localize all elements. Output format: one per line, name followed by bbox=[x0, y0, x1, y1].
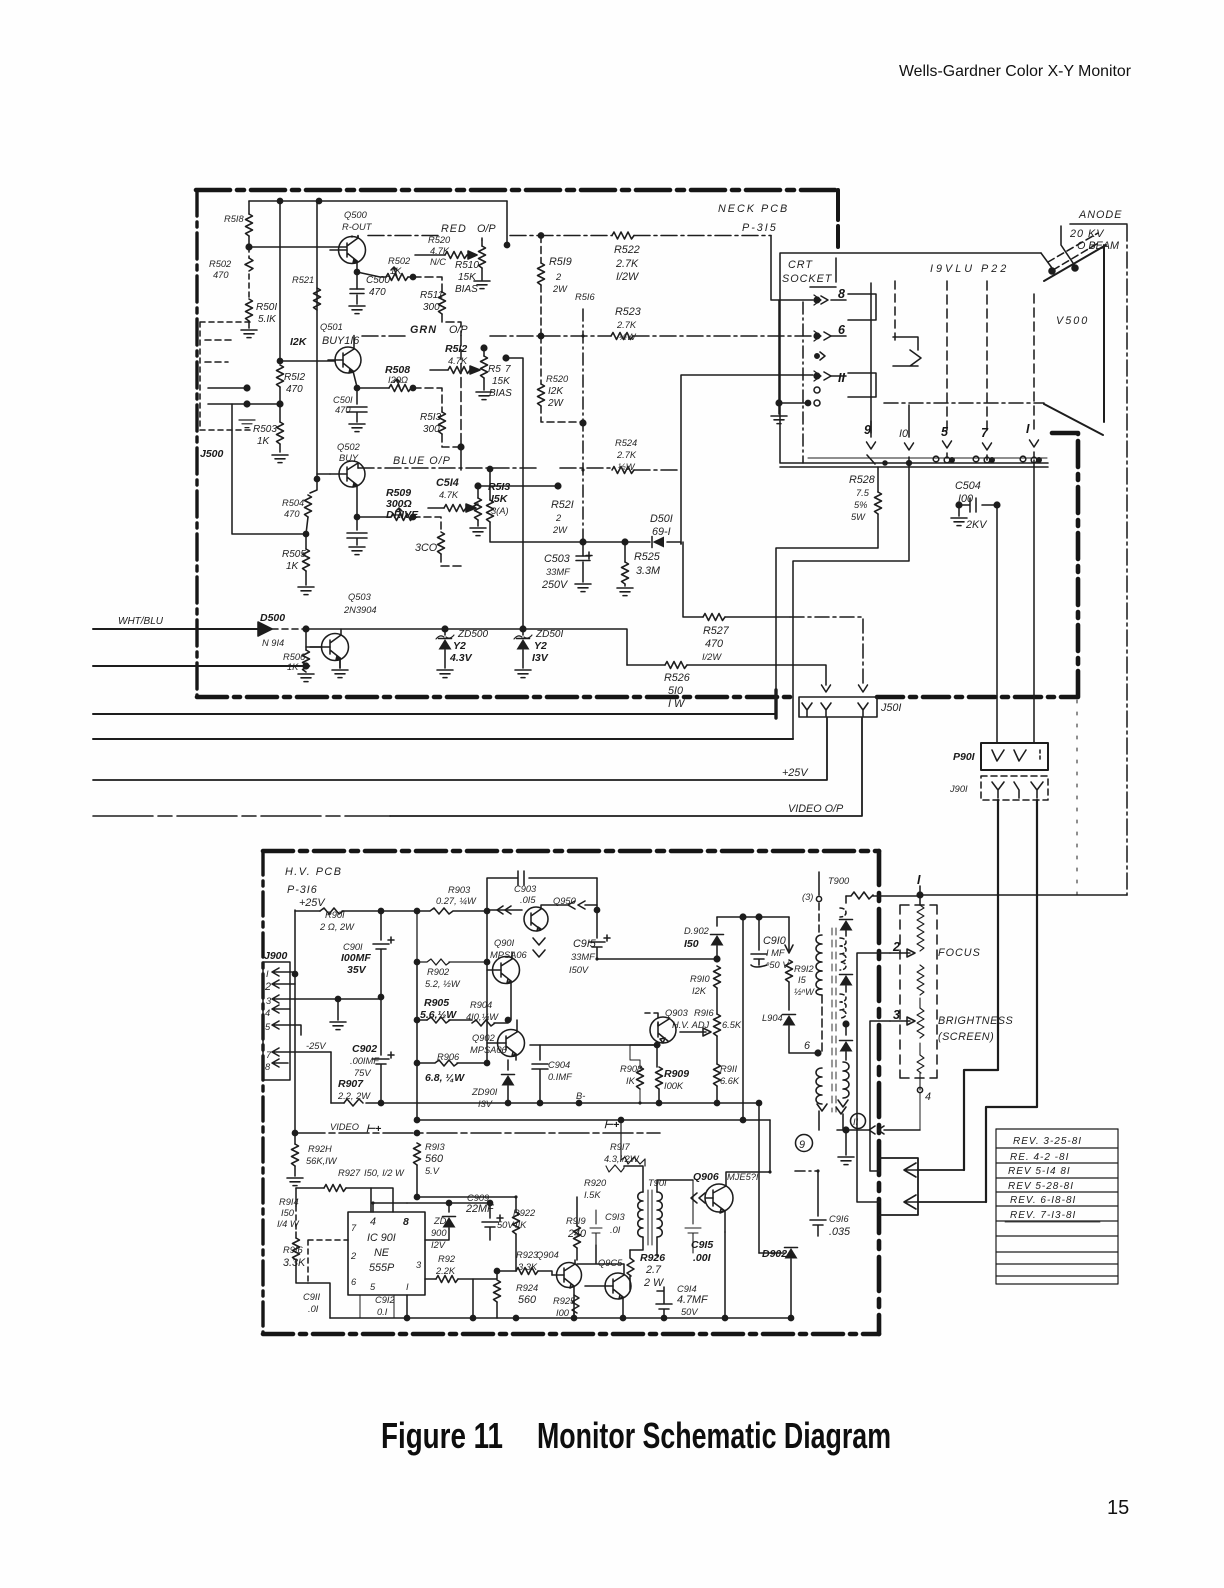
svg-text:I0: I0 bbox=[899, 428, 908, 440]
wire Q902 collector row bbox=[530, 1044, 660, 1046]
svg-text:C9I5: C9I5 bbox=[573, 938, 597, 950]
diode D904 (HV chain 2) bbox=[840, 975, 853, 986]
capacitor C502 bbox=[347, 517, 367, 545]
svg-text:5: 5 bbox=[265, 1022, 271, 1032]
svg-text:J50I: J50I bbox=[880, 702, 901, 714]
socket aux contacts bbox=[815, 354, 819, 358]
svg-text:R528: R528 bbox=[849, 474, 875, 486]
svg-text:69-I: 69-I bbox=[652, 526, 671, 538]
svg-text:R50I: R50I bbox=[256, 302, 277, 313]
ground (ZD501) bbox=[515, 670, 531, 678]
wire top-left rail bbox=[249, 200, 507, 202]
wire focus feed arrow bbox=[837, 1126, 920, 1134]
svg-text:6: 6 bbox=[351, 1277, 357, 1287]
svg-text:R9I0: R9I0 bbox=[690, 974, 710, 984]
svg-text:C50I: C50I bbox=[333, 395, 353, 405]
wire 12K rail bbox=[316, 201, 318, 479]
svg-text:3.3M: 3.3M bbox=[636, 565, 660, 577]
svg-text:I5K: I5K bbox=[491, 493, 509, 505]
wire x583 vertical bbox=[582, 309, 584, 542]
svg-text:R522: R522 bbox=[614, 244, 640, 256]
transistor Q503 bbox=[322, 634, 349, 661]
svg-text:R503: R503 bbox=[253, 424, 277, 435]
svg-text:+25V: +25V bbox=[782, 767, 809, 779]
svg-text:4: 4 bbox=[265, 1008, 270, 1018]
capacitor C500 bbox=[354, 269, 359, 274]
arrow contact a bbox=[904, 1163, 918, 1177]
svg-text:Q90I: Q90I bbox=[494, 938, 515, 948]
svg-text:R524: R524 bbox=[615, 438, 637, 448]
svg-text:560: 560 bbox=[425, 1153, 443, 1165]
svg-text:J500: J500 bbox=[200, 448, 224, 460]
svg-text:1K: 1K bbox=[257, 436, 271, 447]
svg-text:6.8, ¼W: 6.8, ¼W bbox=[425, 1072, 465, 1084]
svg-text:R92H: R92H bbox=[308, 1144, 332, 1154]
ground (socket) bbox=[778, 403, 780, 414]
svg-text:ZD90I: ZD90I bbox=[471, 1087, 498, 1097]
CRT heater columns bbox=[946, 281, 948, 433]
svg-text:R923: R923 bbox=[516, 1250, 539, 1260]
svg-text:Q906: Q906 bbox=[693, 1171, 719, 1183]
svg-text:B-: B- bbox=[576, 1091, 585, 1101]
svg-text:Q904: Q904 bbox=[536, 1250, 559, 1260]
wire long line 2 bbox=[93, 738, 793, 740]
socket pin 6 bbox=[814, 333, 820, 339]
ground (Q503 emitter) bbox=[339, 658, 341, 668]
wire RED jog to socket pin8 bbox=[771, 236, 813, 301]
svg-text:470: 470 bbox=[369, 287, 386, 298]
svg-text:I.5K: I.5K bbox=[584, 1190, 601, 1200]
ground (R510) bbox=[474, 281, 490, 289]
svg-text:BIAS: BIAS bbox=[489, 388, 512, 399]
svg-text:½W: ½W bbox=[619, 332, 637, 342]
svg-text:C9I4: C9I4 bbox=[677, 1284, 697, 1294]
svg-text:NE: NE bbox=[374, 1247, 390, 1259]
NECK PCB border left bbox=[195, 190, 198, 697]
wire T900 drive bbox=[785, 917, 793, 953]
svg-text:R526: R526 bbox=[664, 672, 690, 684]
svg-text:15K: 15K bbox=[492, 376, 511, 387]
svg-text:R502: R502 bbox=[388, 256, 411, 266]
svg-text:.00I: .00I bbox=[693, 1252, 712, 1264]
svg-text:R907: R907 bbox=[338, 1078, 364, 1090]
svg-text:8: 8 bbox=[265, 1062, 271, 1072]
resistor R522 (on RED line) bbox=[612, 232, 634, 239]
HV PCB border right bbox=[877, 851, 882, 1334]
wire B+ feed column bbox=[742, 917, 744, 1120]
svg-text:2 Ω, 2W: 2 Ω, 2W bbox=[319, 922, 355, 932]
svg-text:GRN: GRN bbox=[410, 324, 437, 336]
svg-text:Q9C5: Q9C5 bbox=[598, 1258, 623, 1268]
svg-text:4: 4 bbox=[925, 1091, 931, 1103]
svg-text:ANODE: ANODE bbox=[1078, 209, 1122, 221]
resistor R521 2ohm bbox=[487, 466, 492, 471]
svg-text:C909: C909 bbox=[467, 1193, 489, 1203]
svg-text:IK: IK bbox=[626, 1076, 636, 1086]
spark gap (pin7) bbox=[973, 456, 979, 462]
wire HV right dash remnant bbox=[1076, 700, 1078, 900]
node 4 bbox=[917, 1087, 922, 1092]
svg-text:VIDEO: VIDEO bbox=[330, 1122, 359, 1132]
svg-text:5W: 5W bbox=[851, 512, 866, 522]
arrows Q901 collector bbox=[533, 938, 545, 957]
svg-text:SOCKET: SOCKET bbox=[782, 273, 833, 285]
svg-text:R927: R927 bbox=[338, 1168, 361, 1178]
svg-text:300: 300 bbox=[423, 424, 440, 435]
svg-text:R924: R924 bbox=[516, 1283, 538, 1293]
svg-text:R902: R902 bbox=[427, 967, 450, 977]
svg-text:2W: 2W bbox=[552, 284, 568, 294]
svg-text:2: 2 bbox=[264, 981, 271, 993]
svg-text:I: I bbox=[1026, 422, 1030, 436]
pot BRIGHTNESS bbox=[917, 965, 924, 1008]
ground (C503) bbox=[575, 584, 591, 592]
svg-text:900: 900 bbox=[431, 1228, 447, 1238]
T900 HV secondary bbox=[845, 896, 847, 903]
svg-text:I: I bbox=[266, 969, 269, 979]
svg-text:I2K: I2K bbox=[290, 336, 308, 348]
wire J901 lead A bbox=[964, 800, 998, 1170]
svg-text:C90I: C90I bbox=[343, 942, 363, 952]
NECK PCB border bottom bbox=[197, 695, 796, 700]
svg-text:33MF: 33MF bbox=[571, 952, 596, 962]
svg-text:ZD500: ZD500 bbox=[457, 629, 488, 640]
svg-text:R904: R904 bbox=[470, 1000, 492, 1010]
IC U901 NE555 bbox=[348, 1212, 425, 1295]
wire ZD501 rail from bias row bbox=[506, 358, 523, 629]
svg-text:R506: R506 bbox=[283, 652, 306, 662]
wire zener row to R526 bbox=[523, 629, 627, 665]
svg-text:4.7K: 4.7K bbox=[448, 356, 468, 366]
svg-text:4.7MF: 4.7MF bbox=[677, 1294, 709, 1306]
svg-text:6: 6 bbox=[838, 323, 846, 337]
svg-text:50V: 50V bbox=[681, 1307, 698, 1317]
svg-text:R920: R920 bbox=[584, 1178, 607, 1188]
svg-text:R92: R92 bbox=[438, 1254, 456, 1264]
svg-text:I2K: I2K bbox=[548, 386, 564, 397]
ground (R506) bbox=[298, 674, 314, 682]
svg-text:2N3904: 2N3904 bbox=[343, 605, 377, 615]
svg-text:470: 470 bbox=[284, 509, 300, 519]
wire pin10 jog to line2 bbox=[793, 463, 909, 739]
svg-text:I5: I5 bbox=[798, 975, 807, 985]
svg-text:L904: L904 bbox=[762, 1013, 783, 1023]
svg-text:R511: R511 bbox=[420, 290, 443, 301]
svg-text:-25V: -25V bbox=[306, 1041, 326, 1051]
wire R512 column bbox=[279, 201, 281, 361]
svg-text:Monitor Schematic Diagram: Monitor Schematic Diagram bbox=[537, 1415, 891, 1456]
resistor R526 510 1W bbox=[627, 665, 826, 685]
ground (T900) bbox=[845, 1130, 847, 1155]
svg-text:I: I bbox=[406, 1282, 409, 1292]
svg-text:56K,IW: 56K,IW bbox=[306, 1156, 338, 1166]
ground (R505) bbox=[298, 587, 314, 595]
wire long line 1 bbox=[93, 713, 776, 715]
J501 pin2 arrow bbox=[822, 685, 831, 692]
ground (C504) bbox=[958, 505, 960, 516]
svg-text:D500: D500 bbox=[260, 612, 285, 624]
wire socket ground rail bbox=[779, 300, 806, 403]
svg-text:REV 5-I4 8I: REV 5-I4 8I bbox=[1008, 1166, 1071, 1177]
svg-text:REV. 3-25-8I: REV. 3-25-8I bbox=[1013, 1136, 1082, 1147]
svg-text:R521: R521 bbox=[292, 275, 314, 285]
svg-text:3: 3 bbox=[416, 1260, 422, 1270]
zener ZD500 bbox=[306, 629, 445, 635]
svg-text:R9I9: R9I9 bbox=[566, 1216, 586, 1226]
pot bracket box bbox=[900, 905, 937, 1078]
svg-text:.0I: .0I bbox=[308, 1304, 319, 1314]
svg-text:R5I3: R5I3 bbox=[488, 481, 510, 493]
svg-text:REV. 6-I8-8I: REV. 6-I8-8I bbox=[1010, 1195, 1076, 1206]
svg-text:O/P: O/P bbox=[449, 324, 468, 336]
svg-text:Wells-Gardner Color X-Y Monito: Wells-Gardner Color X-Y Monitor bbox=[899, 63, 1132, 80]
svg-text:P-3I5: P-3I5 bbox=[742, 222, 778, 234]
svg-text:(SCREEN): (SCREEN) bbox=[938, 1031, 994, 1043]
svg-text:NECK PCB: NECK PCB bbox=[718, 203, 789, 215]
svg-text:ZD50I: ZD50I bbox=[535, 629, 563, 640]
svg-text:6.5K: 6.5K bbox=[722, 1020, 742, 1030]
NECK PCB border top bbox=[196, 188, 838, 193]
arrow contact b bbox=[904, 1195, 918, 1209]
svg-text:2.7: 2.7 bbox=[645, 1264, 662, 1276]
svg-text:0.I: 0.I bbox=[377, 1307, 388, 1317]
wire Q501 base bbox=[280, 360, 335, 362]
svg-text:5.V: 5.V bbox=[425, 1166, 440, 1176]
svg-text:+25V: +25V bbox=[299, 897, 326, 909]
svg-text:R905: R905 bbox=[424, 997, 449, 1009]
svg-text:R52I: R52I bbox=[551, 499, 574, 511]
svg-text:R9II: R9II bbox=[720, 1064, 737, 1074]
svg-text:2.2, 2W: 2.2, 2W bbox=[337, 1091, 371, 1101]
svg-text:6: 6 bbox=[804, 1040, 810, 1052]
svg-text:.0I: .0I bbox=[610, 1225, 621, 1235]
HV PCB border left bbox=[261, 851, 264, 1334]
svg-text:R926: R926 bbox=[640, 1252, 665, 1264]
connector HV output block bbox=[880, 1158, 918, 1215]
svg-text:I2V: I2V bbox=[431, 1240, 446, 1250]
svg-text:I MF: I MF bbox=[766, 948, 786, 958]
svg-text:I/2W: I/2W bbox=[616, 271, 640, 283]
svg-text:I3V: I3V bbox=[532, 652, 549, 664]
transistor Q903 bbox=[650, 1017, 676, 1043]
svg-text:I50: I50 bbox=[281, 1208, 295, 1218]
svg-text:3CO: 3CO bbox=[415, 542, 438, 554]
svg-text:9: 9 bbox=[799, 1139, 805, 1151]
svg-text:N/C: N/C bbox=[430, 257, 446, 267]
ground (J500 shield) bbox=[239, 420, 255, 428]
svg-text:7: 7 bbox=[505, 364, 511, 375]
svg-text:2: 2 bbox=[555, 513, 562, 523]
svg-text:BRIGHTNESS: BRIGHTNESS bbox=[938, 1015, 1013, 1027]
ground (J900 pin3) bbox=[330, 1022, 346, 1030]
svg-text:2 W: 2 W bbox=[643, 1277, 665, 1289]
svg-text:3.3K: 3.3K bbox=[518, 1262, 538, 1272]
connector J501 bbox=[799, 697, 877, 717]
svg-text:35V: 35V bbox=[347, 964, 367, 976]
svg-text:8: 8 bbox=[838, 287, 845, 301]
wire B- to C916 bbox=[758, 917, 760, 1240]
svg-text:RED: RED bbox=[441, 223, 467, 235]
ground (R5I3b) bbox=[470, 528, 486, 536]
wire J500 shield to node bbox=[232, 404, 306, 534]
svg-text:C9I5: C9I5 bbox=[691, 1239, 713, 1251]
svg-text:N 9I4: N 9I4 bbox=[262, 638, 284, 648]
svg-text:O/P: O/P bbox=[477, 223, 496, 235]
svg-text:R527: R527 bbox=[703, 625, 730, 637]
svg-text:I50V: I50V bbox=[569, 965, 589, 975]
svg-text:7: 7 bbox=[351, 1223, 357, 1233]
capacitor C901 bbox=[378, 908, 383, 913]
svg-text:2.7K: 2.7K bbox=[616, 450, 637, 460]
svg-text:BLUE O/P: BLUE O/P bbox=[393, 455, 451, 467]
spark gap (pin5) bbox=[933, 456, 939, 462]
svg-text:I00: I00 bbox=[556, 1308, 570, 1318]
svg-text:0.IMF: 0.IMF bbox=[548, 1072, 573, 1082]
wire BLUE to pin11 bbox=[681, 375, 813, 544]
svg-text:I50: I50 bbox=[684, 938, 699, 950]
svg-text:R510: R510 bbox=[455, 260, 479, 271]
node (11) bbox=[851, 1114, 866, 1129]
svg-text:8: 8 bbox=[403, 1216, 409, 1228]
svg-text:33MF: 33MF bbox=[546, 567, 571, 577]
svg-text:3(A): 3(A) bbox=[491, 506, 509, 516]
wire pin3 ground row bbox=[335, 996, 340, 1001]
ground (R507) bbox=[476, 392, 492, 400]
svg-text:R523: R523 bbox=[615, 306, 641, 318]
svg-text:I: I bbox=[917, 873, 921, 887]
ground (C501) bbox=[349, 424, 365, 432]
svg-text:4.3V: 4.3V bbox=[449, 652, 473, 664]
svg-text:2W: 2W bbox=[547, 398, 565, 409]
svg-text:Q503: Q503 bbox=[348, 592, 372, 602]
svg-text:I3V: I3V bbox=[478, 1099, 493, 1109]
wire input 2 bbox=[93, 665, 306, 667]
svg-text:C9I6: C9I6 bbox=[829, 1214, 849, 1224]
diode D903 (HV chain 1) bbox=[840, 920, 853, 931]
svg-text:2.7K: 2.7K bbox=[616, 320, 637, 330]
svg-text:300: 300 bbox=[423, 302, 440, 313]
svg-text:2: 2 bbox=[892, 940, 900, 954]
node B+ row bbox=[417, 1119, 770, 1121]
svg-text:2: 2 bbox=[555, 272, 562, 282]
ground (C502) bbox=[349, 547, 365, 555]
wire stage rail down bbox=[306, 474, 322, 647]
svg-text:C9I0: C9I0 bbox=[763, 935, 786, 947]
svg-text:P-3I6: P-3I6 bbox=[287, 884, 318, 896]
svg-text:2.7K: 2.7K bbox=[615, 258, 639, 270]
svg-text:R9I3: R9I3 bbox=[425, 1142, 445, 1152]
svg-text:15: 15 bbox=[1107, 1497, 1129, 1519]
svg-text:FOCUS: FOCUS bbox=[938, 947, 981, 959]
svg-text:4.7K: 4.7K bbox=[439, 490, 459, 500]
svg-text:470: 470 bbox=[705, 638, 723, 650]
resistor R519 bbox=[540, 236, 542, 264]
svg-text:Figure 11: Figure 11 bbox=[381, 1415, 503, 1456]
svg-text:C9II: C9II bbox=[303, 1292, 320, 1302]
svg-text:I9VLU P22: I9VLU P22 bbox=[930, 263, 1009, 275]
svg-text:4I0,¼W: 4I0,¼W bbox=[466, 1012, 499, 1022]
svg-text:470: 470 bbox=[213, 270, 229, 280]
svg-text:.0I5: .0I5 bbox=[520, 895, 536, 905]
svg-text:1K: 1K bbox=[286, 561, 300, 572]
wire Q500 base bbox=[249, 246, 339, 248]
CRT socket box bbox=[780, 253, 1048, 467]
svg-text:R903: R903 bbox=[448, 885, 471, 895]
ground (R525) bbox=[617, 588, 633, 596]
svg-text:5%: 5% bbox=[854, 500, 867, 510]
svg-text:250V: 250V bbox=[541, 579, 569, 591]
wire oscillator emitter rail bbox=[330, 1317, 791, 1319]
svg-text:C9I3: C9I3 bbox=[605, 1212, 625, 1222]
svg-text:R502: R502 bbox=[209, 259, 232, 269]
HV PCB border bottom bbox=[263, 1332, 879, 1337]
svg-text:C504: C504 bbox=[955, 480, 981, 492]
resistor R525 bbox=[624, 543, 626, 545]
svg-text:R-OUT: R-OUT bbox=[342, 222, 373, 232]
svg-text:J900: J900 bbox=[264, 950, 288, 962]
svg-text:4: 4 bbox=[370, 1216, 376, 1228]
CRT gun electrodes bbox=[848, 294, 876, 320]
T900 filament winding bbox=[843, 1062, 849, 1098]
wire pin1 column down to P901 bbox=[1033, 460, 1035, 743]
svg-text:5.IK: 5.IK bbox=[258, 314, 277, 325]
wire pot2 to HV bbox=[857, 953, 890, 1202]
svg-text:IC 90I: IC 90I bbox=[367, 1232, 396, 1244]
svg-text:7: 7 bbox=[266, 1050, 272, 1060]
svg-text:H.V. PCB: H.V. PCB bbox=[285, 866, 342, 878]
svg-text:R5I9: R5I9 bbox=[549, 256, 572, 268]
svg-text:560: 560 bbox=[518, 1294, 536, 1306]
transistor Q501 bbox=[335, 347, 361, 373]
socket pin 11 bbox=[814, 373, 820, 379]
svg-text:(3): (3) bbox=[802, 892, 813, 902]
svg-text:R5I2: R5I2 bbox=[445, 343, 467, 355]
svg-text:REV. 7-I3-8I: REV. 7-I3-8I bbox=[1010, 1210, 1076, 1221]
svg-text:RE. 4-2 -8I: RE. 4-2 -8I bbox=[1010, 1152, 1069, 1163]
svg-text:R520: R520 bbox=[428, 235, 451, 245]
svg-text:.035: .035 bbox=[829, 1226, 851, 1238]
resistor R918 (T900 top to focus) bbox=[846, 892, 920, 899]
wire arrow b to staircase bbox=[918, 1201, 986, 1203]
svg-text:R9I7: R9I7 bbox=[610, 1142, 630, 1152]
svg-text:Y2: Y2 bbox=[453, 640, 466, 652]
svg-text:REV 5-28-8I: REV 5-28-8I bbox=[1008, 1181, 1074, 1192]
svg-text:I00MF: I00MF bbox=[341, 952, 371, 964]
svg-text:VIDEO O/P: VIDEO O/P bbox=[788, 803, 844, 815]
svg-text:Y2: Y2 bbox=[534, 640, 547, 652]
svg-text:5I0: 5I0 bbox=[668, 685, 683, 697]
transformer T900 core bbox=[832, 928, 836, 1112]
svg-text:R5I2: R5I2 bbox=[284, 372, 306, 383]
svg-text:C902: C902 bbox=[352, 1043, 377, 1055]
svg-text:C503: C503 bbox=[544, 553, 570, 565]
wire anode focus line bbox=[1126, 225, 1128, 895]
resistor R527 470 bbox=[683, 542, 790, 617]
wire top rail HV bbox=[717, 916, 789, 918]
svg-text:R5I6: R5I6 bbox=[575, 292, 595, 302]
svg-text:C9I2: C9I2 bbox=[375, 1295, 395, 1305]
socket ground bus bbox=[808, 457, 1047, 459]
ground (R503) bbox=[272, 455, 288, 463]
wire arrow a to staircase bbox=[918, 1169, 964, 1171]
wire C504/pin7 column down to P901 bbox=[996, 505, 998, 743]
svg-text:Q903: Q903 bbox=[665, 1008, 689, 1018]
svg-text:I W: I W bbox=[668, 698, 686, 710]
spark gap (pin1) bbox=[1020, 456, 1026, 462]
resistor R524 (on BLUE line) bbox=[612, 467, 634, 474]
ground (ZD500) bbox=[437, 670, 453, 678]
svg-text:2W: 2W bbox=[552, 525, 568, 535]
